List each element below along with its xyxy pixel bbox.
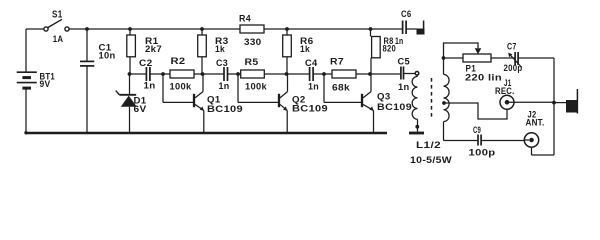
svg-text:10n: 10n (99, 51, 116, 61)
node secondary tap (442, 101, 446, 105)
svg-text:C9: C9 (473, 125, 481, 135)
svg-text:1n: 1n (144, 81, 156, 91)
node Q1 collector (201, 72, 205, 76)
wire P1 wiper loop (444, 43, 479, 58)
svg-text:330: 330 (244, 37, 262, 47)
svg-text:100p: 100p (469, 148, 496, 158)
wire left rail battery top (25, 29, 27, 72)
inductor L1/2 primary winding (412, 75, 417, 131)
resistor R3 1k (198, 29, 207, 74)
node R8 top (369, 27, 373, 31)
node right rail / J1 tip (552, 101, 556, 105)
svg-text:200p: 200p (504, 63, 523, 73)
wire C4 to R7 (314, 73, 333, 75)
resistor R7 68k (332, 70, 356, 78)
svg-text:220 lin: 220 lin (465, 73, 502, 83)
node Q3 base (322, 72, 326, 76)
svg-text:C5: C5 (398, 57, 411, 67)
variable capacitor C7 200p (508, 52, 554, 68)
node R1 top (128, 27, 132, 31)
transformer core (431, 78, 433, 117)
svg-text:820: 820 (383, 44, 397, 54)
wire right rail down (553, 58, 555, 155)
svg-text:10-5/5W: 10-5/5W (410, 155, 452, 165)
svg-text:1n: 1n (398, 82, 410, 92)
node C1 top (85, 27, 89, 31)
svg-text:L1/2: L1/2 (416, 140, 441, 150)
node R6 top (285, 27, 289, 31)
svg-text:ANT.: ANT. (526, 118, 545, 128)
node bottom-left corner (24, 131, 27, 134)
node secondary top (442, 56, 446, 60)
wire C3 to R5 (228, 73, 241, 75)
wire C2 to R2 (150, 73, 170, 75)
jack J1 REC (500, 95, 554, 109)
potentiometer P1 220 lin (445, 54, 514, 62)
wire R5 to C4 (264, 73, 309, 75)
capacitor C1 10n (80, 29, 94, 133)
svg-text:100k: 100k (245, 82, 268, 92)
wire R7 to C5 (356, 73, 401, 75)
svg-text:1A: 1A (53, 34, 64, 44)
ground bus bottom (26, 132, 388, 135)
wire R2 to C3 (194, 73, 224, 75)
resistor R8 820 (371, 29, 381, 74)
jack J2 ANT (524, 133, 538, 155)
node R3 top (200, 27, 204, 31)
node Q2 base (236, 72, 240, 76)
wire node to ground square (554, 102, 566, 104)
svg-text:C2: C2 (139, 58, 153, 68)
svg-text:R4: R4 (239, 14, 251, 24)
resistor R2 100k (170, 70, 194, 78)
potentiometer P1 wiper arrow (475, 48, 482, 54)
svg-text:9V: 9V (40, 79, 51, 89)
wire top bus: R4 to C6 (264, 28, 402, 30)
wire left rail battery bottom (25, 89, 27, 133)
svg-text:R2: R2 (171, 56, 186, 66)
ground (right square) (566, 89, 577, 114)
svg-text:BC109: BC109 (292, 104, 328, 114)
svg-text:2k7: 2k7 (145, 44, 162, 54)
svg-text:S1: S1 (52, 10, 63, 21)
resistor R5 100k (241, 70, 265, 78)
capacitor C9 100p (478, 135, 524, 146)
node Q1 base (161, 72, 165, 76)
node Q3 collector (368, 72, 372, 76)
node transformer primary top (ring) (415, 72, 419, 76)
node primary bottom (415, 125, 419, 129)
svg-text:68k: 68k (332, 83, 351, 93)
wire mid row: node to C2 (130, 73, 147, 75)
switch S1 (44, 19, 69, 31)
capacitor C5 1n (401, 67, 415, 80)
capacitor C3 1n (224, 67, 228, 81)
inductor L1/2 secondary winding (444, 58, 478, 141)
wire J2 sleeve to right rail (532, 154, 555, 156)
transistor Q3 BC109 (324, 74, 374, 133)
resistor R6 1k (283, 29, 292, 74)
wire top bus left from battery to switch (26, 28, 44, 30)
transistor Q2 BC109 (238, 74, 288, 133)
svg-text:1n: 1n (308, 82, 319, 92)
capacitor C6 1n (top right, series) (403, 21, 417, 35)
node R1 bottom / D1 top (128, 72, 132, 76)
svg-text:1n: 1n (219, 81, 230, 91)
wire top bus: switch to R4 (69, 28, 240, 30)
resistor R1 2k7 (127, 29, 136, 74)
svg-text:Q3: Q3 (377, 92, 391, 102)
svg-text:R7: R7 (330, 57, 344, 67)
svg-text:C3: C3 (216, 58, 228, 68)
ground (primary bar) (409, 132, 424, 135)
battery BT1 9V (17, 72, 37, 88)
svg-text:100k: 100k (170, 82, 193, 92)
capacitor C2 1n (146, 67, 150, 81)
resistor R4 330 (series in top bus) (240, 25, 264, 33)
svg-text:C7: C7 (507, 42, 517, 52)
node Q2 collector (285, 72, 289, 76)
svg-text:BC109: BC109 (207, 104, 243, 114)
svg-text:Q1: Q1 (207, 95, 221, 105)
wire tap to J1 sleeve (444, 103, 507, 119)
svg-text:R5: R5 (245, 57, 259, 67)
svg-text:6V: 6V (134, 104, 147, 114)
svg-text:BC109: BC109 (377, 102, 412, 112)
svg-text:1k: 1k (215, 44, 226, 54)
svg-text:C6: C6 (401, 9, 412, 19)
capacitor C4 1n (310, 67, 314, 81)
svg-text:1k: 1k (300, 44, 311, 54)
transistor Q1 BC109 (163, 74, 204, 133)
svg-text:1n: 1n (395, 36, 404, 46)
ground (top right square) (417, 21, 425, 35)
svg-text:REC.: REC. (495, 86, 515, 96)
zener diode D1 6V (116, 74, 137, 133)
svg-text:C4: C4 (305, 58, 318, 68)
